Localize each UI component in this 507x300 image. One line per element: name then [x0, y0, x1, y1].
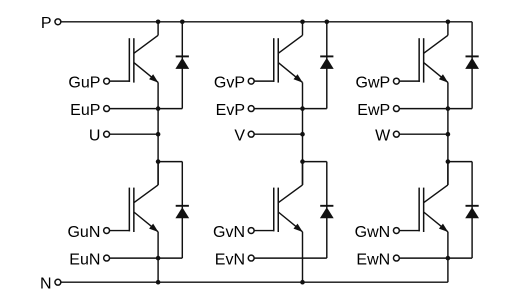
svg-text:W: W	[375, 128, 391, 145]
svg-text:P: P	[41, 15, 52, 32]
svg-text:U: U	[89, 128, 101, 145]
svg-text:EwP: EwP	[357, 102, 390, 119]
svg-text:GwP: GwP	[356, 74, 391, 91]
svg-text:GvP: GvP	[214, 74, 245, 91]
svg-text:GuP: GuP	[68, 74, 100, 91]
svg-text:GvN: GvN	[213, 224, 245, 241]
svg-text:EuP: EuP	[70, 102, 100, 119]
svg-text:GuN: GuN	[67, 224, 100, 241]
svg-text:EvP: EvP	[216, 102, 245, 119]
svg-text:EvN: EvN	[215, 251, 245, 268]
svg-text:EuN: EuN	[69, 251, 100, 268]
svg-text:V: V	[234, 128, 245, 145]
svg-text:N: N	[40, 276, 52, 293]
svg-text:GwN: GwN	[355, 224, 391, 241]
svg-text:EwN: EwN	[356, 251, 390, 268]
